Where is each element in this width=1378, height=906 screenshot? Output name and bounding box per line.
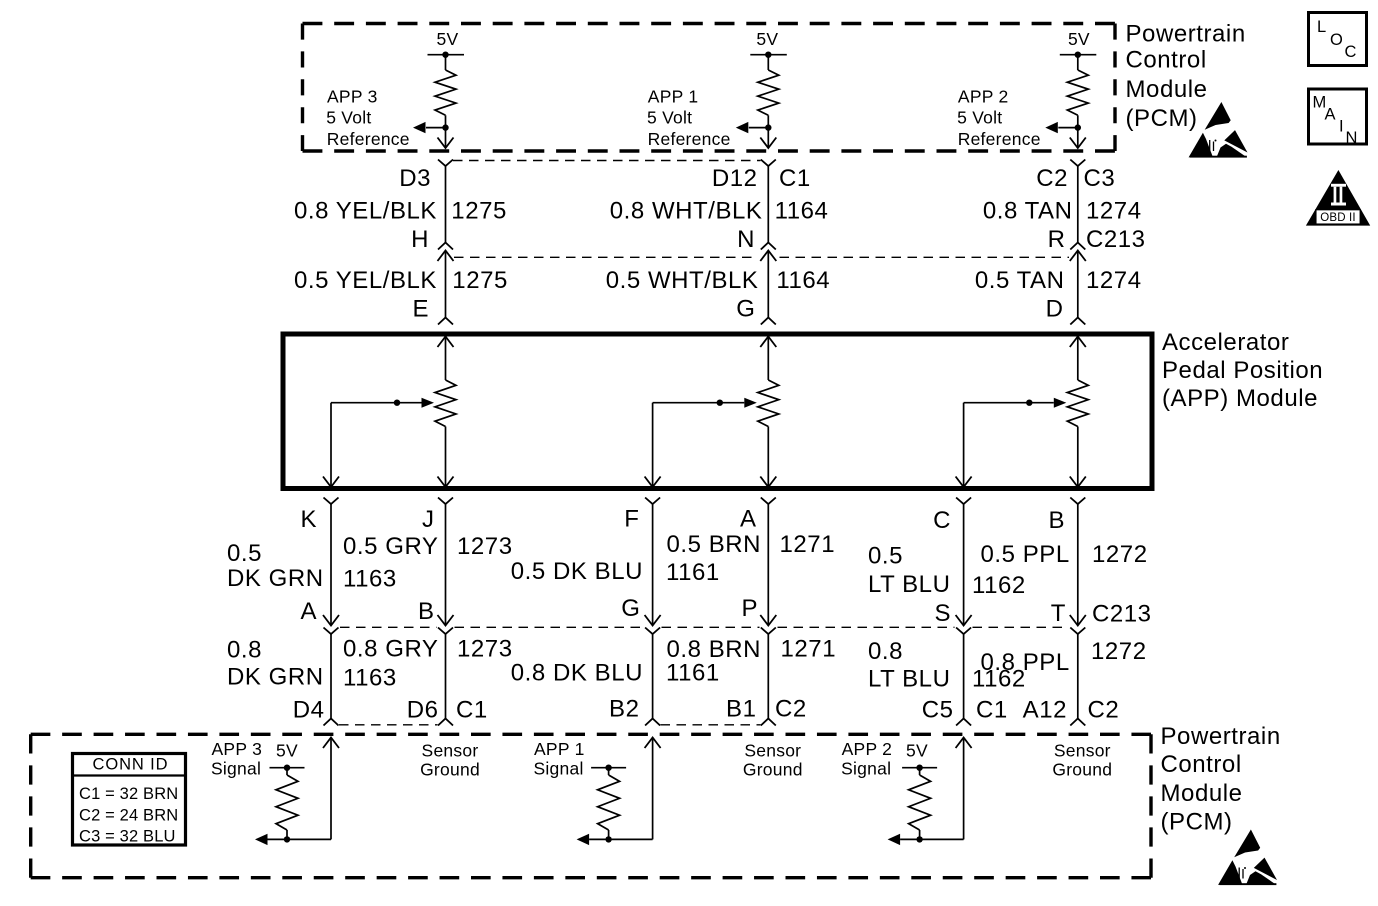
svg-text:1272: 1272 — [1091, 638, 1147, 665]
svg-text:1274: 1274 — [1086, 267, 1142, 294]
svg-text:Ground: Ground — [420, 760, 480, 780]
svg-text:0.5 PPL: 0.5 PPL — [981, 541, 1070, 568]
svg-text:0.5 BRN: 0.5 BRN — [667, 531, 762, 558]
wiper output wire (APP 1 signal) — [645, 403, 661, 487]
resistor: APP 1 signal pull-up — [598, 768, 620, 840]
connector terminal (female) pin C2 — [1070, 160, 1085, 167]
wire 1163 0.5 DK GRN (APP module to C213) — [323, 504, 339, 626]
C213 lower female terminals — [324, 628, 1086, 635]
inline connector C213 lower outline (dashed) — [340, 626, 1069, 628]
wire: reference output to pin, with down arrow — [438, 128, 454, 148]
inline connector C213 outline (dashed) — [454, 256, 1069, 258]
potentiometer track wire in, APP 3 sensor — [438, 337, 454, 381]
wire 1164 0.8 WHT/BLK (PCM to C213) — [767, 166, 769, 243]
svg-text:T: T — [1051, 600, 1066, 627]
wire 1272 0.5 PPL (APP module to C213) — [1070, 504, 1086, 626]
wire 1162 0.8 LT BLU (C213 to PCM) — [956, 634, 971, 726]
svg-text:5V: 5V — [437, 29, 459, 49]
node: APP 3 reference junction — [442, 124, 448, 130]
wire 1162 0.5 LT BLU (APP module to C213) — [956, 504, 972, 626]
resistor R1 (APP 1 5V reference pull-up) — [758, 55, 779, 128]
svg-text:5 Volt: 5 Volt — [957, 108, 1002, 128]
wire 1275 0.5 YEL/BLK (C213 to APP module) — [445, 251, 447, 318]
wire 1161 0.5 DK BLU (APP module to C213) — [645, 504, 661, 626]
wiper arm of APP 3 potentiometer — [331, 398, 434, 408]
svg-text:DK GRN: DK GRN — [227, 664, 324, 691]
svg-text:B1: B1 — [726, 695, 756, 722]
ESD warning symbol (top) — [1189, 102, 1248, 158]
svg-text:F: F — [624, 506, 639, 533]
connector C213 terminal pair at R — [1070, 243, 1086, 262]
svg-text:0.5 TAN: 0.5 TAN — [975, 267, 1065, 294]
svg-text:1161: 1161 — [666, 559, 720, 586]
svg-text:C3: C3 — [1084, 165, 1116, 192]
wire 1274 0.5 TAN (C213 to APP module) — [1077, 251, 1079, 318]
resistor: APP 2 signal pull-up — [909, 768, 931, 840]
svg-text:Accelerator: Accelerator — [1162, 329, 1289, 356]
svg-text:1275: 1275 — [452, 267, 508, 294]
wire 1275 0.8 YEL/BLK (PCM to C213) — [445, 166, 447, 243]
connector terminal (female) pin D3 — [438, 160, 453, 167]
wire 1271 0.5 BRN (APP module to C213) — [760, 504, 776, 626]
svg-text:Pedal Position: Pedal Position — [1162, 357, 1323, 384]
svg-text:5 Volt: 5 Volt — [326, 108, 371, 128]
svg-text:1164: 1164 — [775, 198, 829, 225]
wire 1271 0.8 BRN (C213 to PCM) — [761, 634, 776, 726]
wire 1272 0.8 PPL (C213 to PCM) — [1070, 634, 1085, 726]
svg-text:APP 1: APP 1 — [648, 87, 699, 107]
svg-text:C1: C1 — [779, 165, 811, 192]
label: 0.5 YEL/BLK 1275 — [294, 267, 508, 294]
Accelerator Pedal Position (APP) Module box — [283, 334, 1152, 489]
svg-text:L: L — [1317, 18, 1326, 36]
svg-text:Sensor: Sensor — [422, 741, 479, 761]
potentiometer resistive element (APP 1 sensor) — [758, 380, 779, 426]
svg-text:C1: C1 — [976, 697, 1008, 724]
svg-text:0.8 GRY: 0.8 GRY — [343, 636, 438, 663]
svg-text:C2 = 24 BRN: C2 = 24 BRN — [79, 807, 178, 825]
svg-text:Signal: Signal — [841, 759, 891, 779]
svg-text:APP 2: APP 2 — [842, 739, 893, 759]
svg-text:D12: D12 — [712, 165, 758, 192]
svg-text:5V: 5V — [756, 29, 778, 49]
svg-text:1271: 1271 — [780, 531, 836, 558]
svg-text:0.8 PPL: 0.8 PPL — [981, 649, 1070, 676]
internal signal tap arrow (APP 1) — [577, 834, 590, 845]
svg-text:1163: 1163 — [343, 665, 397, 692]
svg-text:APP 3: APP 3 — [327, 87, 378, 107]
resistor R3 (APP 3 5V reference pull-up) — [435, 55, 456, 128]
wire: APP 3 Signal entering PCM (up arrow) — [268, 738, 340, 840]
svg-text:5V: 5V — [1068, 29, 1090, 49]
svg-text:1274: 1274 — [1086, 198, 1142, 225]
svg-text:0.8 BRN: 0.8 BRN — [667, 636, 762, 663]
svg-text:0.8 WHT/BLK: 0.8 WHT/BLK — [610, 198, 763, 225]
PCM module box (bottom, dashed outline) — [31, 734, 1151, 877]
5V supply bar (APP 2 pull-up) — [902, 765, 937, 771]
svg-text:1273: 1273 — [457, 636, 513, 663]
pin labels D3 / D12 C1 / C2 C3 — [399, 165, 1115, 192]
5V supply node (APP 1 reference) — [750, 29, 787, 58]
svg-text:0.8: 0.8 — [868, 638, 903, 665]
svg-text:1163: 1163 — [343, 566, 397, 593]
svg-text:0.5 GRY: 0.5 GRY — [343, 533, 438, 560]
LOC legend box — [1309, 13, 1367, 66]
MAIN legend box — [1309, 89, 1367, 147]
svg-text:0.5: 0.5 — [227, 540, 262, 567]
svg-text:A: A — [300, 598, 317, 625]
svg-text:Control: Control — [1161, 751, 1242, 778]
svg-text:0.8 TAN: 0.8 TAN — [983, 198, 1073, 225]
potentiometer track wire in, APP 2 sensor — [1070, 337, 1086, 381]
pin labels A B G P S T at C213 — [300, 595, 1151, 628]
svg-text:1164: 1164 — [776, 267, 830, 294]
resistor: APP 3 signal pull-up — [276, 768, 298, 840]
svg-text:S: S — [934, 600, 951, 627]
svg-text:Signal: Signal — [211, 759, 261, 779]
label: APP 1 5 Volt Reference — [647, 87, 731, 149]
label: APP 3 Signal — [211, 739, 262, 779]
svg-text:CONN ID: CONN ID — [93, 756, 169, 774]
svg-text:0.5: 0.5 — [868, 542, 903, 569]
APP module lower connector terminals — [324, 498, 1086, 505]
svg-text:I: I — [1339, 117, 1344, 135]
label: Sensor Ground — [420, 741, 480, 780]
APP module connector terminal pin D — [1070, 318, 1085, 325]
internal signal tap arrow (APP 3) — [255, 834, 268, 845]
node: APP 1 signal junction — [605, 836, 611, 842]
ESD warning symbol (bottom) — [1218, 830, 1277, 886]
resistor R2 (APP 2 5V reference pull-up) — [1067, 55, 1088, 128]
svg-text:1275: 1275 — [451, 198, 507, 225]
svg-text:5V: 5V — [276, 741, 298, 761]
svg-text:C213: C213 — [1092, 601, 1152, 628]
label: Accelerator Pedal Position (APP) Module — [1162, 329, 1323, 412]
svg-text:0.5 DK BLU: 0.5 DK BLU — [511, 558, 643, 585]
wiper output wire (APP 3 signal) — [323, 403, 339, 487]
svg-text:C1 = 32 BRN: C1 = 32 BRN — [79, 785, 178, 803]
wire 1273 0.8 GRY (C213 to PCM) — [438, 634, 453, 726]
svg-text:LT BLU: LT BLU — [868, 666, 950, 693]
svg-text:G: G — [621, 595, 640, 622]
svg-text:D: D — [1046, 296, 1064, 323]
svg-text:C213: C213 — [1086, 226, 1146, 253]
wire: internal tap to APP 2 5 Volt Reference — [1045, 122, 1078, 133]
5V supply node (APP 2 reference) — [1060, 29, 1097, 58]
svg-text:0.8 DK BLU: 0.8 DK BLU — [511, 659, 643, 686]
svg-text:DK GRN: DK GRN — [227, 565, 324, 592]
svg-text:0.5 WHT/BLK: 0.5 WHT/BLK — [606, 267, 759, 294]
svg-text:(PCM): (PCM) — [1126, 105, 1198, 132]
svg-text:Reference: Reference — [648, 129, 731, 149]
internal signal tap arrow (APP 2) — [888, 834, 901, 845]
wiper arm of APP 1 potentiometer — [653, 398, 757, 408]
svg-text:C: C — [1345, 43, 1357, 61]
pin labels K J F A C B — [300, 506, 1065, 535]
connector C213 terminal pair at N — [760, 243, 776, 262]
APP module connector terminal pin E — [438, 318, 453, 325]
svg-text:Ground: Ground — [1052, 760, 1112, 780]
CONN ID legend table — [73, 754, 186, 846]
labels: 0.8 wire colours and circuit numbers — [227, 636, 1147, 693]
svg-text:Module: Module — [1161, 780, 1243, 807]
label: Sensor Ground — [1052, 741, 1112, 780]
potentiometer track wire out — [760, 427, 776, 488]
label: 0.8 TAN 1274 — [983, 198, 1142, 225]
wire: reference output to pin, with down arrow — [1070, 128, 1086, 148]
potentiometer track wire out — [438, 427, 454, 488]
svg-text:R: R — [1048, 226, 1066, 253]
label: Powertrain Control Module (PCM) top — [1126, 20, 1246, 132]
svg-text:B: B — [418, 598, 435, 625]
labels: 0.5 wire colours and circuit numbers — [227, 531, 1148, 599]
svg-text:0.8 YEL/BLK: 0.8 YEL/BLK — [294, 198, 437, 225]
PCM connector outlines C1 and C2 (dashed) — [339, 724, 761, 726]
wire 1161 0.8 DK BLU (C213 to PCM) — [645, 634, 660, 726]
svg-text:N: N — [1346, 129, 1358, 147]
svg-text:Sensor: Sensor — [1054, 741, 1111, 761]
wire 1273 0.5 GRY (APP module to C213) — [438, 504, 454, 626]
svg-text:Reference: Reference — [327, 129, 410, 149]
svg-text:Control: Control — [1126, 47, 1207, 74]
svg-text:APP 2: APP 2 — [958, 87, 1009, 107]
potentiometer resistive element (APP 3 sensor) — [435, 380, 456, 426]
svg-text:Reference: Reference — [958, 129, 1041, 149]
label: 0.8 WHT/BLK 1164 — [610, 198, 829, 225]
svg-text:APP 3: APP 3 — [212, 739, 263, 759]
wire 1164 0.5 WHT/BLK (C213 to APP module) — [767, 251, 769, 318]
svg-text:B: B — [1048, 507, 1065, 534]
PCM module box (top, dashed outline) — [303, 24, 1116, 152]
label: APP 1 Signal — [534, 739, 585, 779]
connector C1 outline (dashed) — [453, 160, 761, 162]
label: 0.5 TAN 1274 — [975, 267, 1142, 294]
5V supply bar (APP 1 pull-up) — [591, 765, 626, 771]
svg-text:D6: D6 — [407, 696, 439, 723]
wire: reference output to pin, with down arrow — [760, 128, 776, 148]
svg-text:5V: 5V — [906, 741, 928, 761]
svg-text:0.5 YEL/BLK: 0.5 YEL/BLK — [294, 267, 437, 294]
svg-text:D3: D3 — [399, 165, 431, 192]
svg-text:(PCM): (PCM) — [1161, 809, 1233, 836]
node: APP 2 signal junction — [916, 836, 922, 842]
svg-text:C2: C2 — [775, 695, 807, 722]
svg-text:Signal: Signal — [534, 759, 584, 779]
node: APP 3 signal junction — [284, 836, 290, 842]
APP module connector terminal pin G — [761, 318, 776, 325]
potentiometer resistive element (APP 2 sensor) — [1067, 380, 1088, 426]
wiper arm of APP 2 potentiometer — [964, 398, 1067, 408]
label: Sensor Ground — [743, 741, 803, 780]
svg-text:(APP) Module: (APP) Module — [1162, 385, 1318, 412]
connector C213 terminal pair at H — [438, 243, 454, 262]
svg-text:H: H — [411, 226, 429, 253]
svg-text:N: N — [737, 226, 755, 253]
svg-text:J: J — [422, 506, 435, 533]
svg-text:Ground: Ground — [743, 760, 803, 780]
svg-text:P: P — [741, 595, 758, 622]
svg-text:E: E — [412, 296, 429, 323]
wire: APP 2 Signal entering PCM (up arrow) — [900, 738, 972, 840]
svg-text:LT BLU: LT BLU — [868, 571, 950, 598]
svg-text:C5: C5 — [922, 697, 954, 724]
connector terminal (female) pin D12 — [761, 160, 776, 167]
wire: internal tap to APP 1 5 Volt Reference — [736, 122, 769, 133]
svg-text:G: G — [736, 296, 755, 323]
label: 0.5 WHT/BLK 1164 — [606, 267, 830, 294]
svg-text:B2: B2 — [609, 695, 639, 722]
label: APP 2 5 Volt Reference — [957, 87, 1041, 149]
svg-text:C: C — [933, 507, 951, 534]
5V supply bar (APP 3 pull-up) — [270, 765, 305, 771]
svg-text:D4: D4 — [293, 696, 325, 723]
svg-text:OBD II: OBD II — [1320, 212, 1355, 224]
svg-text:O: O — [1330, 31, 1343, 49]
svg-text:C2: C2 — [1036, 165, 1068, 192]
svg-text:C1: C1 — [456, 696, 488, 723]
svg-text:C2: C2 — [1088, 697, 1120, 724]
5V supply node (APP 3 reference) — [428, 29, 465, 58]
svg-text:Module: Module — [1126, 76, 1208, 103]
svg-text:1273: 1273 — [457, 533, 513, 560]
potentiometer track wire in, APP 1 sensor — [760, 337, 776, 381]
wire 1274 0.8 TAN (PCM to C213) — [1077, 166, 1079, 243]
svg-text:APP 1: APP 1 — [534, 739, 585, 759]
svg-text:1271: 1271 — [781, 636, 837, 663]
label: Powertrain Control Module (PCM) bottom — [1161, 723, 1281, 836]
svg-text:Sensor: Sensor — [744, 741, 801, 761]
node: APP 2 reference junction — [1075, 124, 1081, 130]
svg-text:1162: 1162 — [972, 572, 1026, 599]
svg-text:A: A — [1325, 106, 1336, 124]
label: APP 2 Signal — [841, 739, 892, 779]
pin labels D4 D6 C1 B2 B1 C2 C5 C1 A12 C2 — [293, 695, 1120, 723]
svg-text:1161: 1161 — [666, 659, 720, 686]
svg-text:K: K — [300, 506, 317, 533]
svg-text:1272: 1272 — [1092, 541, 1148, 568]
wire: APP 1 Signal entering PCM (up arrow) — [589, 738, 661, 840]
wiper output wire (APP 2 signal) — [956, 403, 972, 487]
wire 1163 0.8 DK GRN (C213 to PCM) — [324, 634, 339, 726]
wire: internal tap to APP 3 5 Volt Reference — [413, 122, 446, 133]
svg-text:Powertrain: Powertrain — [1126, 20, 1246, 47]
svg-text:C3 = 32 BLU: C3 = 32 BLU — [79, 828, 176, 846]
potentiometer track wire out — [1070, 427, 1086, 488]
OBD II symbol — [1306, 170, 1370, 226]
svg-text:A: A — [740, 506, 757, 533]
svg-text:A12: A12 — [1023, 697, 1067, 724]
node: APP 1 reference junction — [765, 124, 771, 130]
svg-text:0.8: 0.8 — [227, 637, 262, 664]
label: 0.8 YEL/BLK 1275 — [294, 198, 507, 225]
label: APP 3 5 Volt Reference — [326, 87, 410, 149]
svg-text:5 Volt: 5 Volt — [647, 108, 692, 128]
svg-text:Powertrain: Powertrain — [1161, 723, 1281, 750]
